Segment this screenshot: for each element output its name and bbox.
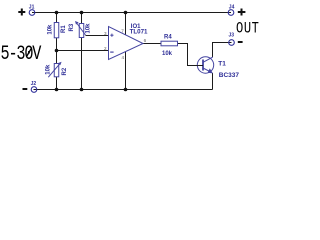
svg-text:R3: R3 <box>69 23 75 31</box>
label OUT <box>236 20 259 38</box>
plus sign at J4 <box>238 9 246 16</box>
wire R3 top lead <box>81 13 83 24</box>
connector J3 <box>229 32 235 45</box>
svg-text:10k: 10k <box>162 51 173 57</box>
label 5-30V supply voltage <box>1 43 42 66</box>
svg-text:J3: J3 <box>229 32 235 38</box>
junction dot R3 top <box>80 11 84 15</box>
junction dot R3 bottom <box>80 88 84 92</box>
junction dot R1 top <box>55 11 59 15</box>
wire op-amp pin 4 to bottom rail <box>125 52 127 90</box>
wire R2 top lead <box>56 51 58 64</box>
connector J4 <box>228 5 234 16</box>
wire R4 to corner <box>178 44 203 66</box>
wire R3 bottom lead to ground rail <box>81 38 83 90</box>
svg-text:BC337: BC337 <box>219 72 240 79</box>
wire T1 emitter to bottom rail <box>212 73 214 90</box>
svg-text:6: 6 <box>144 38 147 43</box>
svg-text:10k: 10k <box>86 23 92 34</box>
svg-text:5-30V: 5-30V <box>1 43 42 66</box>
svg-text:10k: 10k <box>48 24 54 35</box>
junction dot pin 7 top <box>124 11 128 15</box>
wire op-amp output pin 6 to R4 <box>143 43 161 45</box>
wire R1 top lead <box>56 13 58 24</box>
svg-text:R1: R1 <box>61 25 67 33</box>
svg-text:R2: R2 <box>62 67 68 75</box>
junction dot node A <box>55 49 59 53</box>
junction dot pin 4 bottom <box>124 88 128 92</box>
svg-text:4: 4 <box>121 55 124 60</box>
wire op-amp pin 7 to top rail <box>125 13 127 35</box>
potentiometer R3 <box>69 21 92 38</box>
svg-text:OUT: OUT <box>236 20 259 38</box>
wire node A to op-amp pin 2 <box>57 50 109 52</box>
svg-text:TL071: TL071 <box>130 29 148 36</box>
minus sign at J2 <box>23 88 28 90</box>
junction dot R2 bottom <box>55 88 59 92</box>
wire bottom rail from J2 to emitter <box>34 89 213 91</box>
svg-text:J2: J2 <box>31 81 37 87</box>
resistor R4 <box>161 35 178 57</box>
svg-text:R4: R4 <box>164 35 172 41</box>
op-amp IO1 TL071 <box>104 24 148 60</box>
connector J2 <box>31 81 37 92</box>
minus sign at J3 <box>238 41 243 43</box>
slash of zero in 5-30V <box>27 48 32 57</box>
trimmer R2 <box>45 62 68 77</box>
wire R3 wiper to op-amp pin 3 <box>86 35 109 37</box>
svg-text:T1: T1 <box>218 60 226 67</box>
svg-text:10k: 10k <box>45 64 51 75</box>
plus sign at J1 <box>18 9 25 16</box>
wire T1 collector to J3 <box>213 43 232 58</box>
transistor T1 BC337 <box>196 57 239 79</box>
wire R2 bottom lead <box>56 77 58 90</box>
svg-text:7: 7 <box>121 29 124 34</box>
connector J1 <box>29 5 35 16</box>
svg-text:3: 3 <box>104 31 107 36</box>
svg-text:2: 2 <box>104 46 107 51</box>
wire R1 bottom lead to node A <box>56 38 58 51</box>
wire top rail from J1 to J4 <box>32 12 231 14</box>
svg-text:J4: J4 <box>229 5 235 11</box>
svg-text:J1: J1 <box>29 5 35 11</box>
resistor R1 <box>48 23 67 38</box>
